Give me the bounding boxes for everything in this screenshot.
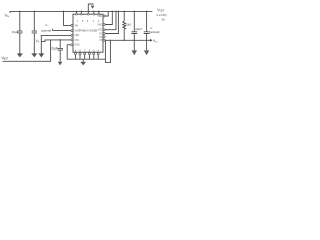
arrow end of lower rail xyxy=(150,39,152,42)
svg-text:SW1: SW1 xyxy=(97,16,103,18)
wire right pin4 to rail xyxy=(105,11,118,33)
resistor R1 10k pull xyxy=(123,11,126,40)
svg-text:SW2: SW2 xyxy=(97,24,103,26)
wire right pin3 to rail xyxy=(105,11,116,29)
ground arrow net A xyxy=(38,53,44,57)
wire bottom pin stems xyxy=(76,55,99,60)
ground arrow for C2 xyxy=(31,53,37,57)
op-amp U1 chip body xyxy=(73,14,103,52)
capacitor C3 22uF output xyxy=(131,11,137,50)
wire net C pin5 left to bottom bus xyxy=(67,45,71,59)
svg-text:7: 7 xyxy=(77,21,79,23)
svg-text:C: C xyxy=(150,26,153,30)
svg-text:4: 4 xyxy=(98,21,100,23)
svg-text:22µF: 22µF xyxy=(135,27,142,31)
capacitor C5 10uF near chip xyxy=(57,39,63,62)
capacitor C2 optional input xyxy=(32,11,37,53)
ground arrow bottom bus xyxy=(82,59,84,62)
wire bottom bus xyxy=(67,58,105,60)
pin label marks inside chip right xyxy=(97,16,103,42)
pin number marks bottom xyxy=(75,50,100,52)
value label 22uF for C3 xyxy=(135,27,142,31)
svg-text:4: 4 xyxy=(93,21,95,23)
wire rail to pin VIN left xyxy=(64,11,72,25)
wire net B pin4 left join xyxy=(41,40,71,42)
svg-text:10µF: 10µF xyxy=(50,46,58,50)
wire gnd loop outer xyxy=(105,40,110,62)
part number U1 xyxy=(79,29,97,33)
svg-text:NC: NC xyxy=(99,33,103,35)
svg-text:VO1: VO1 xyxy=(98,30,103,32)
svg-text:9: 9 xyxy=(87,21,89,23)
ground arrow for C3 xyxy=(132,50,137,55)
svg-text:GND: GND xyxy=(74,45,79,47)
svg-text:3A: 3A xyxy=(161,17,165,21)
wire top rail VIN xyxy=(10,11,152,13)
wire net A pin3 left to ground xyxy=(41,35,71,53)
wire top pin drops xyxy=(77,11,99,14)
pin label marks inside chip left xyxy=(74,25,79,46)
svg-text:10kΩ: 10kΩ xyxy=(125,23,131,27)
svg-text:NC: NC xyxy=(99,37,103,39)
junction dots on rail xyxy=(19,11,147,41)
svg-text:(optional): (optional) xyxy=(41,29,51,33)
svg-text:VIN: VIN xyxy=(5,14,10,19)
svg-text:10µF: 10µF xyxy=(11,30,18,34)
value label 10k for R1 xyxy=(125,23,131,27)
svg-text:VIO: VIO xyxy=(153,39,158,44)
svg-text:8: 8 xyxy=(82,21,84,23)
node VIN label xyxy=(5,14,10,19)
svg-text:GND: GND xyxy=(74,31,79,33)
svg-text:VOUT: VOUT xyxy=(157,8,165,13)
node VOUT label xyxy=(156,8,166,21)
svg-text:VBAT: VBAT xyxy=(1,56,8,61)
wire chip gnd drop xyxy=(104,40,106,59)
wire lower gnd rail right xyxy=(105,39,150,41)
pin number marks top xyxy=(77,21,100,23)
svg-text:C: C xyxy=(45,23,48,27)
wire bottom-left net xyxy=(3,40,51,61)
value label 10uF for C5 xyxy=(50,46,58,50)
pin circles right xyxy=(103,15,105,41)
wire right pin2 to rail xyxy=(105,11,112,24)
svg-text:PAM24 4Q3B: PAM24 4Q3B xyxy=(79,29,97,33)
svg-text:VS: VS xyxy=(36,39,40,44)
pin circles left xyxy=(71,24,73,45)
ground arrow for C1 xyxy=(17,53,23,57)
value label C (optional) for C2 xyxy=(41,23,51,33)
svg-text:VDD: VDD xyxy=(74,35,79,37)
node VBAT label bottom-left xyxy=(1,56,8,61)
ground arrow for C4 xyxy=(144,50,149,55)
svg-text:FB: FB xyxy=(99,40,102,42)
wire stub pin 2 left xyxy=(53,29,72,31)
value label 10uF for C1 xyxy=(11,30,18,34)
svg-text:VSS: VSS xyxy=(74,40,79,42)
wire enable stub with arrow xyxy=(88,4,93,14)
capacitor C4 optional output xyxy=(144,11,150,50)
capacitor C1 10uF input xyxy=(17,11,22,53)
node Vs label xyxy=(36,39,40,44)
value label C (optional) for C4 xyxy=(149,26,159,34)
ground arrow for C5 xyxy=(58,62,63,66)
svg-text:VIN: VIN xyxy=(74,25,78,27)
junction dots on lower gnd rail xyxy=(123,40,124,41)
wire right pin1 to rail xyxy=(105,11,108,16)
node VIO label xyxy=(153,39,158,44)
pin circles bottom xyxy=(75,53,100,55)
svg-text:(optional): (optional) xyxy=(149,30,159,34)
pin circles top xyxy=(76,13,100,15)
